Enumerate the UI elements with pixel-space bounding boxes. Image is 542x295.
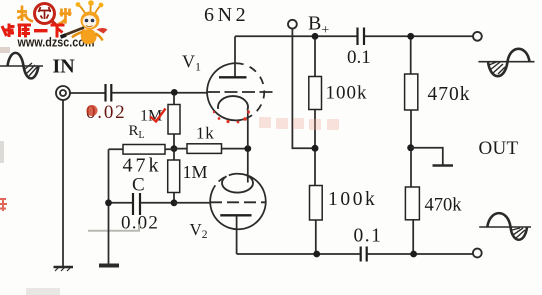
watermark logo: orange text 找: [17, 6, 33, 22]
node mid-left junction dot: [312, 145, 319, 152]
node Z junction dot: [171, 199, 178, 206]
resistor Rg2 1M (lower): [168, 151, 180, 201]
resistor Rk 1k: [174, 144, 248, 154]
faint red watermark ghost (middle): [259, 117, 339, 130]
ground GND1: [54, 267, 74, 271]
svg-text:100k: 100k: [326, 83, 368, 104]
input sine wave symbol: [0, 53, 43, 79]
svg-text:6N2: 6N2: [204, 4, 249, 26]
watermark mascot: [61, 0, 108, 44]
capacitor 0.02 input: [106, 84, 112, 102]
wire: C right plate to node Z: [141, 202, 171, 204]
svg-text:0.1: 0.1: [354, 226, 383, 247]
watermark logo: orange text 片: [59, 8, 72, 24]
capacitor 0.1 bottom: [361, 247, 367, 262]
ground GND3: [433, 164, 454, 167]
node bottom-left junction dot: [313, 251, 320, 258]
svg-text:IN: IN: [53, 56, 76, 78]
red specks on V1: [213, 111, 250, 124]
V2 grid (dashed): [210, 201, 266, 203]
capacitor 0.1 top: [358, 28, 365, 46]
watermark red char 维: [2, 24, 15, 38]
wire: input terminal down to ground: [62, 100, 64, 266]
watermark red char 下: [51, 25, 65, 38]
V1 cathode hook: [218, 96, 248, 110]
ground GND2: [99, 264, 119, 268]
wire: input terminal to C-in: [70, 92, 105, 94]
B+ terminal (open circle): [288, 20, 297, 29]
resistor R1 100k (upper): [309, 40, 322, 147]
resistor R3 470k (upper): [405, 40, 418, 147]
wire: node Z to V2 grid: [174, 202, 210, 204]
resistor Rg1 1M (grid leak V1): [168, 96, 180, 147]
gray artifact line: [88, 225, 139, 231]
output sine wave bottom (in phase): [479, 213, 531, 240]
svg-text:OUT: OUT: [479, 138, 519, 159]
node on ground rail: [105, 199, 112, 206]
V1 grid (dashed): [207, 91, 277, 93]
svg-text:0.1: 0.1: [347, 47, 371, 68]
gray smudge bottom-left: [26, 288, 60, 295]
V1 anode plate: [219, 76, 247, 78]
bottom rail: [237, 253, 360, 255]
watermark red char 库: [18, 25, 32, 38]
wire: junction to ground GND3: [411, 148, 443, 165]
capacitor C 0.02 (cathode bypass): [133, 193, 140, 215]
V1 anode lead: [234, 36, 236, 77]
red watermark blob over 0: [87, 105, 98, 116]
svg-text:100k: 100k: [328, 189, 377, 210]
red check mark: [150, 109, 166, 122]
node bottom-right junction dot: [410, 251, 417, 258]
svg-text:470k: 470k: [428, 84, 471, 105]
red watermark fragment left edge: [0, 199, 7, 211]
svg-text:470k: 470k: [425, 196, 463, 216]
gray streak left edge: [0, 141, 4, 163]
node B+ junction dot: [312, 33, 319, 40]
wire: left ground rail vertical: [108, 149, 110, 264]
V2 cathode lead from node Y: [247, 151, 249, 183]
triode V1 envelope: [207, 63, 264, 120]
V2 cathode hook: [222, 175, 253, 192]
output terminal bottom (open circle): [473, 249, 482, 258]
input terminal J1: [56, 86, 70, 100]
triode V2 envelope: [210, 174, 266, 230]
wire: C-in to grid node A: [112, 92, 207, 94]
resistor R4 470k (lower): [405, 151, 419, 253]
resistor RL 47k body: [109, 145, 175, 155]
gray-red smudge left edge: [0, 47, 10, 53]
wire: terminal down to 100k junction: [292, 29, 312, 149]
output sine wave top (inverted): [478, 49, 534, 76]
svg-text:1k: 1k: [196, 124, 215, 143]
wire: cap 0.1 to right terminal: [365, 35, 473, 37]
resistor R2 100k (lower): [310, 151, 323, 252]
watermark magnifier ring over 芯: [35, 4, 58, 27]
svg-text:47k: 47k: [123, 155, 162, 177]
output terminal top (open circle): [473, 32, 482, 41]
V2 anode lead down: [236, 215, 238, 254]
node top-right junction dot: [407, 33, 414, 40]
watermark red char 一: [34, 29, 48, 32]
top rail B+: [235, 35, 357, 37]
wire: cap to bottom-right terminal: [367, 253, 473, 255]
svg-text:C: C: [132, 175, 145, 196]
svg-text:1M: 1M: [183, 162, 208, 182]
node A junction dot: [171, 89, 178, 96]
V1 cathode lead to node Y: [247, 110, 249, 147]
wire: C left plate to ground line: [109, 202, 133, 204]
node X junction dot: [171, 145, 178, 152]
node Y junction dot: [244, 145, 251, 152]
V2 anode plate: [220, 214, 251, 216]
node mid-right junction dot: [407, 144, 414, 151]
